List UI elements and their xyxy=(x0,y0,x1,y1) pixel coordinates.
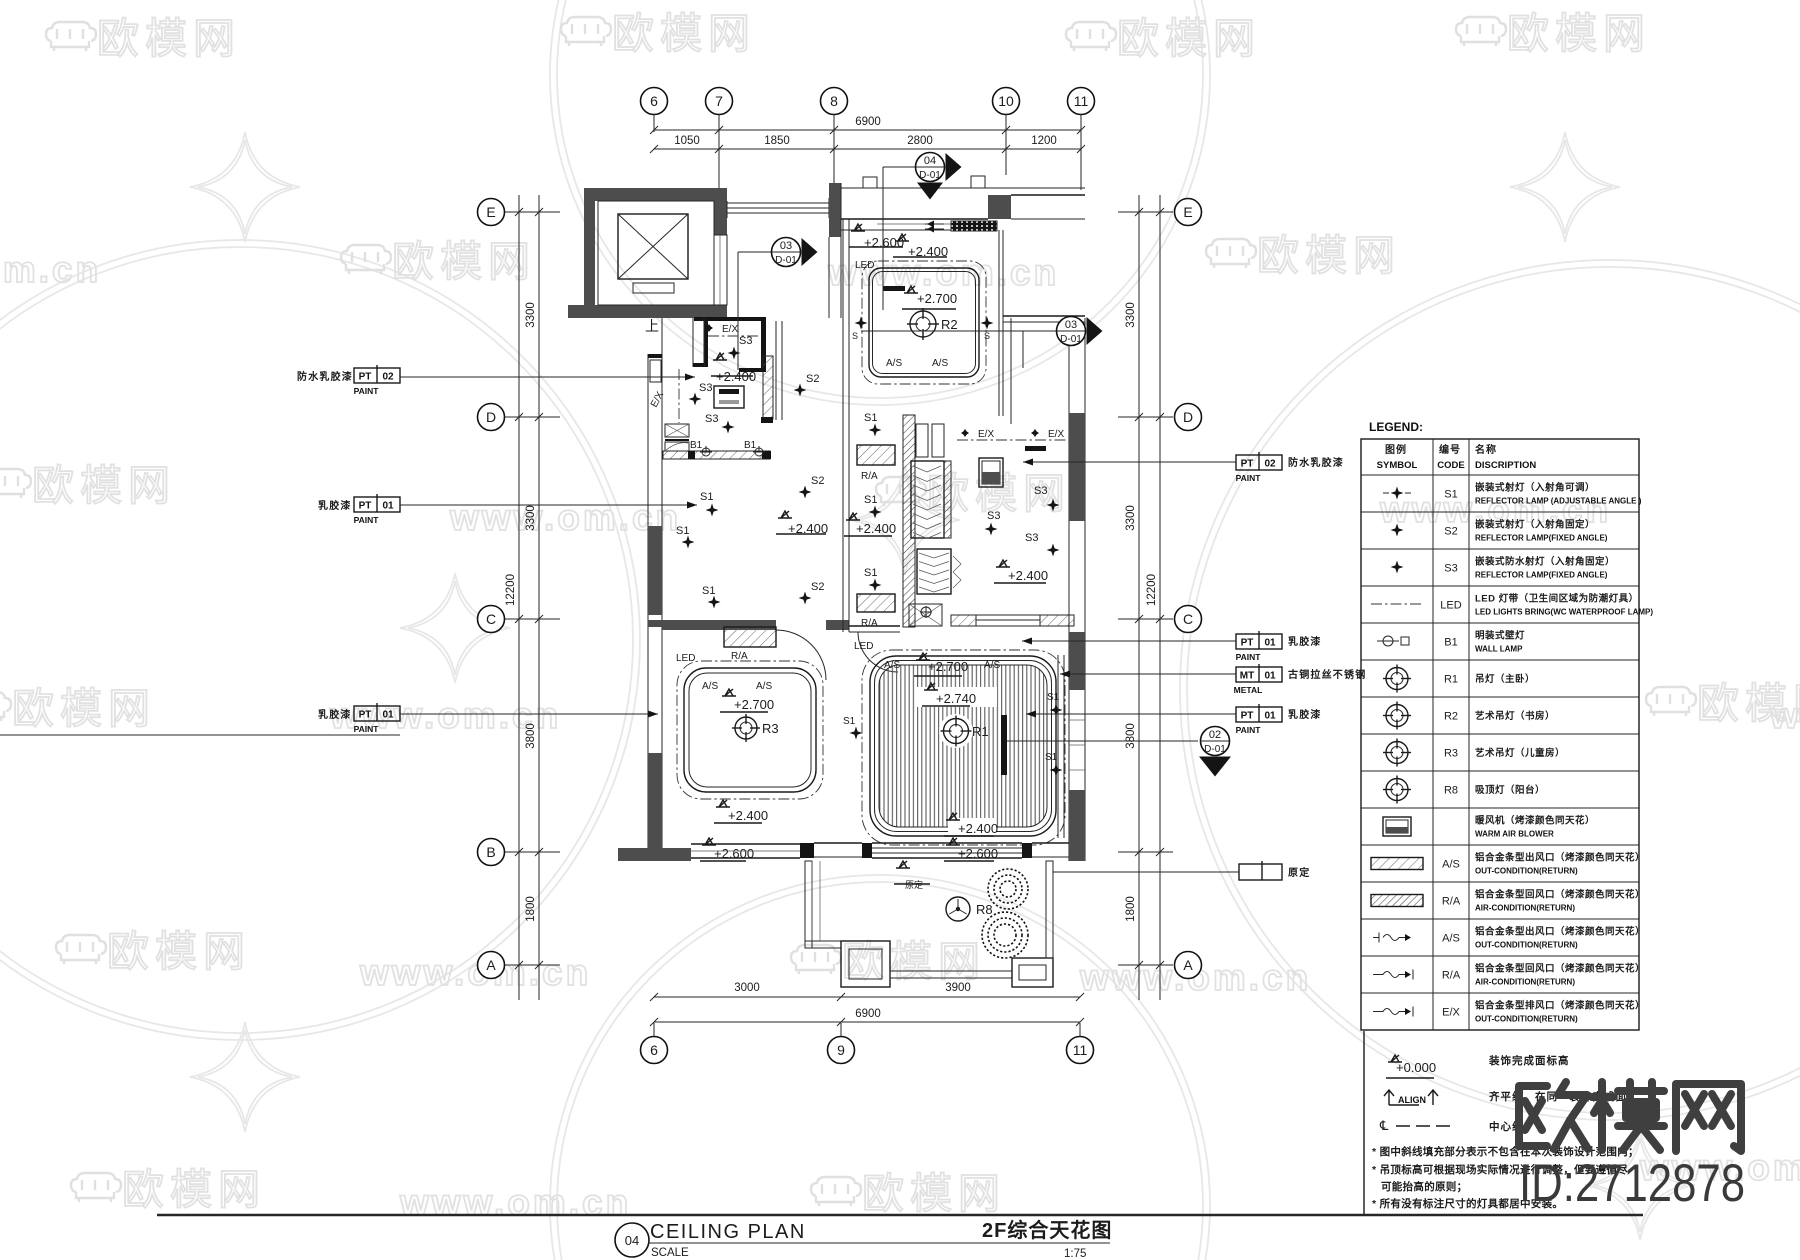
svg-text:S2: S2 xyxy=(806,373,819,385)
svg-text:B: B xyxy=(486,844,495,860)
svg-text:+2.400: +2.400 xyxy=(958,821,998,836)
svg-text:02: 02 xyxy=(382,372,394,383)
svg-text:铝合金条型出风口（烤漆颜色同天花）: 铝合金条型出风口（烤漆颜色同天花） xyxy=(1475,926,1645,938)
svg-text:铝合金条型出风口（烤漆颜色同天花）: 铝合金条型出风口（烤漆颜色同天花） xyxy=(1475,852,1645,864)
svg-text:1800: 1800 xyxy=(525,896,537,922)
svg-text:02: 02 xyxy=(1209,729,1221,741)
svg-text:ALIGN: ALIGN xyxy=(1398,1095,1426,1105)
svg-text:01: 01 xyxy=(1264,638,1276,649)
svg-text:S3: S3 xyxy=(1034,485,1047,497)
svg-text:PAINT: PAINT xyxy=(354,724,380,734)
svg-text:1050: 1050 xyxy=(674,135,700,147)
svg-text:+2.400: +2.400 xyxy=(908,244,948,259)
svg-text:11: 11 xyxy=(1073,1042,1088,1058)
svg-text:上: 上 xyxy=(645,318,659,334)
svg-text:CEILING PLAN: CEILING PLAN xyxy=(650,1221,806,1243)
svg-text:www.om.cn: www.om.cn xyxy=(0,249,101,290)
svg-text:欧模网: 欧模网 xyxy=(612,10,756,57)
svg-text:12200: 12200 xyxy=(1146,574,1158,606)
svg-text:LED LIGHTS BRING(WC WATERPROOF: LED LIGHTS BRING(WC WATERPROOF LAMP) xyxy=(1475,608,1653,617)
svg-text:艺术吊灯（儿童房）: 艺术吊灯（儿童房） xyxy=(1475,747,1565,759)
svg-text:R/A: R/A xyxy=(1442,970,1461,982)
svg-text:1:75: 1:75 xyxy=(1064,1248,1086,1260)
svg-text:S1: S1 xyxy=(676,525,689,537)
svg-text:LED 灯带（卫生间区域为防潮灯具）: LED 灯带（卫生间区域为防潮灯具） xyxy=(1475,593,1639,605)
svg-text:R2: R2 xyxy=(941,317,958,332)
svg-text:PAINT: PAINT xyxy=(1236,725,1262,735)
svg-text:图例: 图例 xyxy=(1385,443,1407,456)
svg-text:A/S: A/S xyxy=(756,681,772,692)
svg-text:3300: 3300 xyxy=(1125,505,1137,531)
svg-text:R8: R8 xyxy=(1444,785,1458,797)
svg-text:PAINT: PAINT xyxy=(354,386,380,396)
svg-text:欧模网: 欧模网 xyxy=(1507,10,1651,57)
svg-text:S2: S2 xyxy=(811,475,824,487)
svg-text:A/S: A/S xyxy=(886,358,902,369)
svg-text:9: 9 xyxy=(837,1042,845,1058)
svg-text:C: C xyxy=(1183,611,1193,627)
svg-text:+2.700: +2.700 xyxy=(917,291,957,306)
svg-text:A/S: A/S xyxy=(1442,933,1460,945)
svg-text:吊灯（主卧）: 吊灯（主卧） xyxy=(1475,673,1535,685)
svg-text:PAINT: PAINT xyxy=(1236,473,1262,483)
svg-text:A/S: A/S xyxy=(1442,859,1460,871)
svg-text:D: D xyxy=(486,409,496,425)
svg-text:明装式壁灯: 明装式壁灯 xyxy=(1475,630,1525,642)
svg-text:+2.400: +2.400 xyxy=(788,521,828,536)
svg-text:E/X: E/X xyxy=(978,429,994,440)
svg-text:D-01: D-01 xyxy=(1060,334,1082,345)
svg-text:PT: PT xyxy=(1241,711,1254,722)
svg-text:S1: S1 xyxy=(864,494,877,506)
svg-text:03: 03 xyxy=(780,240,792,252)
svg-text:AIR-CONDITION(RETURN): AIR-CONDITION(RETURN) xyxy=(1475,904,1575,913)
svg-text:LED: LED xyxy=(1440,600,1461,612)
svg-text:PT: PT xyxy=(359,372,372,383)
svg-text:CODE: CODE xyxy=(1437,460,1464,471)
svg-text:S2: S2 xyxy=(1444,526,1457,538)
svg-text:欧模网: 欧模网 xyxy=(1257,232,1401,279)
svg-text:3900: 3900 xyxy=(945,982,971,994)
svg-text:OUT-CONDITION(RETURN): OUT-CONDITION(RETURN) xyxy=(1475,941,1578,950)
svg-text:R8: R8 xyxy=(976,902,993,917)
svg-text:S1: S1 xyxy=(864,567,877,579)
svg-text:S1: S1 xyxy=(864,412,877,424)
svg-text:LED: LED xyxy=(855,260,874,271)
svg-text:REFLECTOR LAMP(FIXED ANGLE): REFLECTOR LAMP(FIXED ANGLE) xyxy=(1475,534,1608,543)
svg-text:6: 6 xyxy=(650,93,658,109)
svg-text:www.om.cn: www.om.cn xyxy=(1769,695,1800,736)
svg-text:防水乳胶漆: 防水乳胶漆 xyxy=(297,370,353,383)
svg-text:嵌装式防水射灯（入射角固定）: 嵌装式防水射灯（入射角固定） xyxy=(1475,556,1615,568)
svg-text:7: 7 xyxy=(715,93,723,109)
svg-text:+2.600: +2.600 xyxy=(864,235,904,250)
svg-text:+2.600: +2.600 xyxy=(714,846,754,861)
svg-text:A/S: A/S xyxy=(932,358,948,369)
svg-text:MT: MT xyxy=(1240,671,1254,682)
svg-text:03: 03 xyxy=(1065,319,1077,331)
svg-text:LEGEND:: LEGEND: xyxy=(1369,420,1423,434)
svg-text:01: 01 xyxy=(382,501,394,512)
svg-text:www.om.cn: www.om.cn xyxy=(359,952,591,993)
svg-text:E/X: E/X xyxy=(1048,429,1064,440)
svg-text:R1: R1 xyxy=(972,724,989,739)
svg-text:A: A xyxy=(1183,957,1193,973)
svg-text:编号: 编号 xyxy=(1439,443,1461,456)
svg-text:A/S: A/S xyxy=(884,660,900,671)
svg-text:1800: 1800 xyxy=(1125,896,1137,922)
svg-text:D-01: D-01 xyxy=(1204,744,1226,755)
svg-text:S: S xyxy=(852,331,858,341)
svg-text:04: 04 xyxy=(924,155,936,167)
svg-text:3800: 3800 xyxy=(525,723,537,749)
svg-text:AIR-CONDITION(RETURN): AIR-CONDITION(RETURN) xyxy=(1475,978,1575,987)
svg-text:暖风机（烤漆颜色同天花）: 暖风机（烤漆颜色同天花） xyxy=(1475,815,1595,827)
svg-text:欧模网: 欧模网 xyxy=(862,1170,1006,1217)
svg-text:古铜拉丝不锈钢: 古铜拉丝不锈钢 xyxy=(1288,668,1366,681)
svg-text:D-01: D-01 xyxy=(919,170,941,181)
svg-text:2F综合天花图: 2F综合天花图 xyxy=(982,1218,1112,1242)
svg-text:6: 6 xyxy=(650,1042,658,1058)
svg-text:+2.700: +2.700 xyxy=(928,659,968,674)
svg-text:R1: R1 xyxy=(1444,674,1458,686)
svg-text:欧模网: 欧模网 xyxy=(1117,15,1261,62)
svg-text:S3: S3 xyxy=(699,382,712,394)
svg-text:DISCRIPTION: DISCRIPTION xyxy=(1475,460,1536,471)
svg-text:3300: 3300 xyxy=(525,505,537,531)
svg-text:S1: S1 xyxy=(1045,752,1058,763)
svg-text:S3: S3 xyxy=(705,413,718,425)
svg-text:3000: 3000 xyxy=(734,982,760,994)
svg-text:欧模网: 欧模网 xyxy=(122,1166,266,1213)
svg-text:01: 01 xyxy=(1264,671,1276,682)
svg-text:吸顶灯（阳台）: 吸顶灯（阳台） xyxy=(1475,784,1545,796)
svg-text:PT: PT xyxy=(1241,459,1254,470)
svg-text:欧模网: 欧模网 xyxy=(392,238,536,285)
svg-text:2800: 2800 xyxy=(907,135,933,147)
svg-text:PT: PT xyxy=(1241,638,1254,649)
svg-text:S3: S3 xyxy=(1444,563,1457,575)
svg-text:METAL: METAL xyxy=(1234,685,1263,695)
svg-text:R3: R3 xyxy=(762,721,779,736)
svg-text:REFLECTOR LAMP(FIXED ANGLE): REFLECTOR LAMP(FIXED ANGLE) xyxy=(1475,571,1608,580)
svg-text:04: 04 xyxy=(625,1233,639,1248)
svg-text:R/A: R/A xyxy=(861,471,878,482)
svg-text:℄: ℄ xyxy=(1379,1118,1389,1133)
svg-text:R/A: R/A xyxy=(861,618,878,629)
svg-text:铝合金条型排风口（烤漆颜色同天花）: 铝合金条型排风口（烤漆颜色同天花） xyxy=(1475,1000,1645,1012)
svg-text:OUT-CONDITION(RETURN): OUT-CONDITION(RETURN) xyxy=(1475,1015,1578,1024)
svg-text:S1: S1 xyxy=(843,716,856,727)
svg-text:S: S xyxy=(984,331,990,341)
svg-text:原定: 原定 xyxy=(1288,866,1310,879)
svg-text:名称: 名称 xyxy=(1475,443,1497,456)
svg-text:6900: 6900 xyxy=(855,116,881,128)
svg-text:欧模网: 欧模网 xyxy=(107,928,251,975)
svg-text:3300: 3300 xyxy=(1125,302,1137,328)
svg-text:+2.400: +2.400 xyxy=(1008,568,1048,583)
svg-text:S1: S1 xyxy=(1444,489,1457,501)
svg-text:1200: 1200 xyxy=(1031,135,1057,147)
svg-text:乳胶漆: 乳胶漆 xyxy=(1288,708,1322,721)
svg-text:E/X: E/X xyxy=(1442,1007,1460,1019)
svg-text:R3: R3 xyxy=(1444,748,1458,760)
svg-text:D-01: D-01 xyxy=(775,255,797,266)
svg-text:A/S: A/S xyxy=(984,660,1000,671)
svg-text:S3: S3 xyxy=(1025,532,1038,544)
svg-text:10: 10 xyxy=(998,93,1014,109)
svg-text:乳胶漆: 乳胶漆 xyxy=(1288,635,1322,648)
svg-text:R/A: R/A xyxy=(731,651,748,662)
svg-text:铝合金条型回风口（烤漆颜色同天花）: 铝合金条型回风口（烤漆颜色同天花） xyxy=(1475,889,1645,901)
svg-text:可能抬高的原则；: 可能抬高的原则； xyxy=(1381,1180,1467,1193)
svg-text:装饰完成面标高: 装饰完成面标高 xyxy=(1488,1054,1570,1067)
svg-text:6900: 6900 xyxy=(855,1008,881,1020)
svg-text:12200: 12200 xyxy=(505,574,517,606)
svg-text:REFLECTOR LAMP (ADJUSTABLE ANG: REFLECTOR LAMP (ADJUSTABLE ANGLE ) xyxy=(1475,497,1642,506)
svg-text:+0.000: +0.000 xyxy=(1396,1060,1436,1075)
svg-text:LED: LED xyxy=(854,641,873,652)
svg-text:R/A: R/A xyxy=(1442,896,1461,908)
svg-text:www.om.cn: www.om.cn xyxy=(449,497,681,538)
svg-text:B1: B1 xyxy=(690,440,703,451)
svg-text:R2: R2 xyxy=(1444,711,1458,723)
svg-text:E: E xyxy=(1183,204,1192,220)
svg-text:D: D xyxy=(1183,409,1193,425)
svg-text:01: 01 xyxy=(382,710,394,721)
svg-text:OUT-CONDITION(RETURN): OUT-CONDITION(RETURN) xyxy=(1475,867,1578,876)
svg-text:E: E xyxy=(486,204,495,220)
svg-text:ID:2712878: ID:2712878 xyxy=(1519,1154,1745,1213)
svg-text:A/S: A/S xyxy=(702,681,718,692)
svg-text:+2.700: +2.700 xyxy=(734,697,774,712)
svg-text:+2.740: +2.740 xyxy=(936,691,976,706)
svg-text:B1: B1 xyxy=(1444,637,1457,649)
svg-text:+2.400: +2.400 xyxy=(728,808,768,823)
svg-text:A: A xyxy=(486,957,496,973)
svg-text:欧模网: 欧模网 xyxy=(12,685,156,732)
svg-text:1850: 1850 xyxy=(764,135,790,147)
svg-text:欧模网: 欧模网 xyxy=(32,462,176,509)
svg-text:3800: 3800 xyxy=(1125,723,1137,749)
svg-text:铝合金条型回风口（烤漆颜色同天花）: 铝合金条型回风口（烤漆颜色同天花） xyxy=(1475,963,1645,975)
svg-text:PAINT: PAINT xyxy=(1236,652,1262,662)
svg-text:欧模网: 欧模网 xyxy=(97,15,241,62)
svg-text:嵌装式射灯（入射角可调）: 嵌装式射灯（入射角可调） xyxy=(1475,482,1595,494)
svg-text:乳胶漆: 乳胶漆 xyxy=(318,708,352,721)
svg-text:防水乳胶漆: 防水乳胶漆 xyxy=(1288,456,1344,469)
svg-text:S3: S3 xyxy=(987,510,1000,522)
svg-text:+2.400: +2.400 xyxy=(856,521,896,536)
svg-text:11: 11 xyxy=(1074,93,1089,109)
svg-text:WALL LAMP: WALL LAMP xyxy=(1475,645,1523,654)
svg-text:PT: PT xyxy=(359,501,372,512)
svg-text:S3: S3 xyxy=(739,335,752,347)
svg-text:E/X: E/X xyxy=(722,324,738,335)
svg-text:S2: S2 xyxy=(811,581,824,593)
svg-text:WARM AIR BLOWER: WARM AIR BLOWER xyxy=(1475,830,1554,839)
svg-text:3300: 3300 xyxy=(525,302,537,328)
svg-text:S1: S1 xyxy=(700,491,713,503)
svg-text:8: 8 xyxy=(830,93,838,109)
svg-text:SYMBOL: SYMBOL xyxy=(1377,460,1418,471)
svg-text:www.om.cn: www.om.cn xyxy=(399,1182,631,1223)
svg-text:乳胶漆: 乳胶漆 xyxy=(318,499,352,512)
svg-text:02: 02 xyxy=(1264,459,1276,470)
svg-text:B1: B1 xyxy=(744,440,757,451)
svg-text:PAINT: PAINT xyxy=(354,515,380,525)
svg-text:01: 01 xyxy=(1264,711,1276,722)
svg-text:C: C xyxy=(486,611,496,627)
svg-text:PT: PT xyxy=(359,710,372,721)
svg-text:SCALE: SCALE xyxy=(651,1247,689,1259)
svg-text:S1: S1 xyxy=(702,585,715,597)
svg-text:艺术吊灯（书房）: 艺术吊灯（书房） xyxy=(1475,710,1555,722)
svg-text:嵌装式射灯（入射角固定）: 嵌装式射灯（入射角固定） xyxy=(1475,519,1595,531)
